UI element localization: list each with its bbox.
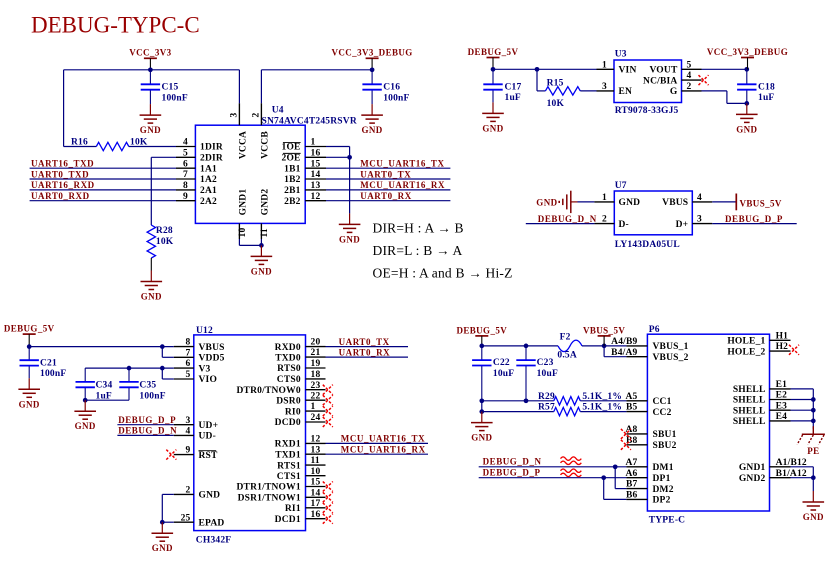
svg-text:DP2: DP2 — [653, 496, 671, 506]
svg-text:GND: GND — [140, 125, 161, 135]
svg-text:R57: R57 — [538, 403, 555, 413]
svg-text:DIR=H : A → B: DIR=H : A → B — [373, 220, 464, 235]
svg-text:9: 9 — [186, 446, 191, 456]
svg-text:4: 4 — [186, 427, 191, 437]
svg-text:HOLE_1: HOLE_1 — [727, 337, 765, 347]
svg-text:MCU_UART16_RX: MCU_UART16_RX — [341, 445, 426, 455]
svg-text:RXD0: RXD0 — [275, 343, 301, 353]
svg-text:C15: C15 — [162, 83, 179, 93]
svg-text:100nF: 100nF — [162, 93, 188, 103]
svg-text:D-: D- — [619, 220, 629, 230]
svg-text:2: 2 — [687, 82, 692, 92]
svg-text:UART16_RXD: UART16_RXD — [31, 180, 95, 190]
svg-text:2B2: 2B2 — [284, 197, 300, 207]
svg-text:DEBUG_D_P: DEBUG_D_P — [725, 214, 783, 224]
svg-text:1B1: 1B1 — [284, 164, 300, 174]
svg-text:GND: GND — [736, 124, 757, 134]
svg-text:2: 2 — [252, 113, 262, 118]
svg-text:UD+: UD+ — [199, 421, 219, 431]
svg-text:SBU1: SBU1 — [653, 430, 677, 440]
svg-text:UART0_RX: UART0_RX — [339, 347, 391, 357]
svg-text:14: 14 — [311, 488, 321, 498]
svg-text:MCU_UART16_RX: MCU_UART16_RX — [360, 180, 445, 190]
svg-text:UART0_RXD: UART0_RXD — [31, 191, 90, 201]
svg-text:F2: F2 — [560, 333, 571, 343]
svg-text:3: 3 — [697, 215, 702, 225]
svg-text:DP1: DP1 — [653, 474, 671, 484]
svg-text:DEBUG_5V: DEBUG_5V — [456, 325, 507, 335]
svg-text:VCCA: VCCA — [239, 131, 249, 159]
svg-text:1uF: 1uF — [758, 93, 774, 103]
svg-text:RTS0: RTS0 — [277, 364, 301, 374]
svg-text:3: 3 — [602, 82, 607, 92]
svg-text:C17: C17 — [505, 82, 522, 92]
svg-text:U12: U12 — [196, 326, 213, 336]
svg-text:VDD5: VDD5 — [199, 354, 225, 364]
svg-text:VBUS_5V: VBUS_5V — [583, 325, 625, 335]
svg-text:E2: E2 — [776, 391, 788, 401]
svg-text:GND1: GND1 — [739, 463, 766, 473]
svg-text:1: 1 — [311, 402, 316, 412]
svg-text:GND: GND — [803, 512, 824, 522]
svg-text:GND1: GND1 — [239, 189, 249, 216]
svg-text:TXD0: TXD0 — [275, 353, 301, 363]
svg-text:DSR0: DSR0 — [276, 396, 301, 406]
svg-text:CTS1: CTS1 — [277, 472, 301, 482]
svg-text:CH342F: CH342F — [196, 536, 232, 546]
svg-text:C18: C18 — [758, 82, 775, 92]
svg-text:TYPE-C: TYPE-C — [649, 516, 686, 526]
svg-text:8: 8 — [183, 181, 188, 191]
svg-text:DM2: DM2 — [653, 485, 674, 495]
svg-text:DEBUG_5V: DEBUG_5V — [468, 47, 519, 57]
svg-text:A5: A5 — [625, 392, 637, 402]
svg-text:H2: H2 — [776, 342, 789, 352]
svg-text:100nF: 100nF — [383, 93, 409, 103]
svg-text:RXD1: RXD1 — [275, 440, 301, 450]
svg-text:PE: PE — [807, 446, 819, 456]
svg-text:GND: GND — [536, 197, 557, 207]
svg-text:2: 2 — [186, 486, 191, 496]
svg-text:C16: C16 — [383, 83, 400, 93]
svg-text:18: 18 — [311, 370, 321, 380]
svg-text:0.5A: 0.5A — [557, 351, 577, 361]
svg-text:2DIR: 2DIR — [200, 154, 223, 164]
svg-text:25: 25 — [181, 513, 191, 523]
svg-text:13: 13 — [311, 445, 321, 455]
svg-text:B6: B6 — [626, 491, 638, 501]
svg-text:VBUS_2: VBUS_2 — [653, 353, 689, 363]
svg-text:10K: 10K — [130, 137, 148, 147]
svg-text:VOUT: VOUT — [649, 66, 678, 76]
svg-text:7: 7 — [186, 348, 191, 358]
svg-text:16: 16 — [311, 510, 321, 520]
svg-text:1: 1 — [602, 193, 607, 203]
svg-text:UART0_TXD: UART0_TXD — [31, 169, 89, 179]
svg-text:A6: A6 — [625, 469, 637, 479]
svg-text:23: 23 — [311, 381, 321, 391]
svg-text:VCC_3V3: VCC_3V3 — [129, 48, 171, 58]
svg-text:100nF: 100nF — [139, 391, 165, 401]
svg-text:GND2: GND2 — [739, 474, 766, 484]
svg-text:VCCB: VCCB — [261, 131, 271, 159]
svg-text:10: 10 — [311, 467, 321, 477]
svg-text:E4: E4 — [776, 412, 788, 422]
svg-text:GND: GND — [361, 125, 382, 135]
svg-text:1OE: 1OE — [282, 143, 301, 153]
svg-text:EPAD: EPAD — [199, 518, 225, 528]
svg-text:1B2: 1B2 — [284, 175, 300, 185]
svg-text:DEBUG_D_N: DEBUG_D_N — [118, 426, 177, 436]
svg-text:G: G — [670, 87, 678, 97]
svg-text:GND: GND — [619, 198, 641, 208]
svg-text:SHELL: SHELL — [733, 385, 766, 395]
svg-text:E1: E1 — [776, 380, 788, 390]
svg-text:GND: GND — [152, 543, 173, 553]
svg-text:8: 8 — [186, 338, 191, 348]
svg-text:RI1: RI1 — [285, 504, 301, 514]
svg-text:3: 3 — [230, 113, 240, 118]
svg-text:CC1: CC1 — [653, 397, 672, 407]
svg-text:17: 17 — [311, 499, 321, 509]
svg-text:RST: RST — [199, 451, 219, 461]
svg-text:C35: C35 — [139, 381, 156, 391]
svg-text:R28: R28 — [156, 226, 173, 236]
svg-text:DEBUG-TYPC-C: DEBUG-TYPC-C — [31, 13, 200, 38]
svg-text:5: 5 — [186, 370, 191, 380]
svg-text:10uF: 10uF — [537, 369, 558, 379]
svg-text:SHELL: SHELL — [733, 406, 766, 416]
svg-text:1DIR: 1DIR — [200, 143, 223, 153]
svg-text:P6: P6 — [649, 325, 660, 335]
svg-text:GND2: GND2 — [261, 189, 271, 216]
svg-text:7: 7 — [183, 170, 188, 180]
svg-text:VBUS: VBUS — [662, 198, 688, 208]
svg-text:9: 9 — [183, 192, 188, 202]
svg-text:DCD0: DCD0 — [275, 418, 301, 428]
svg-text:22: 22 — [311, 391, 321, 401]
svg-text:SBU2: SBU2 — [653, 441, 677, 451]
svg-text:R15: R15 — [547, 78, 564, 88]
svg-text:DTR0/TNOW0: DTR0/TNOW0 — [237, 386, 301, 396]
svg-text:GND: GND — [471, 433, 492, 443]
svg-text:VCC_3V3_DEBUG: VCC_3V3_DEBUG — [331, 48, 412, 58]
svg-text:GND: GND — [482, 123, 503, 133]
svg-text:VBUS_5V: VBUS_5V — [740, 199, 782, 209]
svg-text:24: 24 — [311, 413, 321, 423]
svg-text:20: 20 — [311, 338, 321, 348]
svg-text:10: 10 — [238, 228, 248, 238]
svg-text:GND: GND — [75, 421, 96, 431]
svg-text:C22: C22 — [493, 358, 510, 368]
svg-text:6: 6 — [183, 159, 188, 169]
svg-text:12: 12 — [311, 435, 321, 445]
svg-text:R16: R16 — [71, 137, 88, 147]
svg-text:C23: C23 — [537, 358, 554, 368]
svg-text:TXD1: TXD1 — [275, 450, 301, 460]
svg-text:21: 21 — [311, 348, 321, 358]
svg-text:100nF: 100nF — [40, 369, 66, 379]
svg-text:SHELL: SHELL — [733, 396, 766, 406]
svg-text:OE=H : A and B → Hi-Z: OE=H : A and B → Hi-Z — [373, 266, 513, 281]
svg-text:3: 3 — [186, 416, 191, 426]
svg-text:C21: C21 — [40, 358, 57, 368]
svg-text:10uF: 10uF — [493, 369, 514, 379]
svg-text:B8: B8 — [626, 436, 638, 446]
svg-text:2A2: 2A2 — [200, 197, 217, 207]
svg-text:DSR1/TNOW1: DSR1/TNOW1 — [238, 494, 301, 504]
svg-text:5: 5 — [183, 148, 188, 158]
svg-text:VIN: VIN — [619, 66, 637, 76]
svg-text:GND: GND — [339, 234, 360, 244]
svg-text:DM1: DM1 — [653, 463, 674, 473]
svg-text:1: 1 — [602, 60, 607, 70]
svg-text:U7: U7 — [615, 181, 627, 191]
svg-text:DTR1/TNOW1: DTR1/TNOW1 — [237, 483, 301, 493]
svg-text:DCD1: DCD1 — [275, 515, 301, 525]
svg-text:CTS0: CTS0 — [277, 375, 301, 385]
svg-text:U3: U3 — [615, 50, 627, 60]
svg-text:UD-: UD- — [199, 432, 217, 442]
svg-text:R29: R29 — [538, 392, 555, 402]
svg-text:15: 15 — [311, 478, 321, 488]
svg-text:MCU_UART16_TX: MCU_UART16_TX — [360, 159, 444, 169]
svg-text:A8: A8 — [625, 425, 637, 435]
svg-text:10K: 10K — [547, 99, 565, 109]
svg-text:C34: C34 — [96, 381, 113, 391]
svg-text:LY143DA05UL: LY143DA05UL — [615, 240, 680, 250]
svg-text:4: 4 — [183, 138, 188, 148]
svg-text:11: 11 — [311, 456, 320, 466]
svg-text:DEBUG_D_N: DEBUG_D_N — [538, 214, 597, 224]
svg-text:6: 6 — [186, 359, 191, 369]
svg-text:CC2: CC2 — [653, 408, 672, 418]
svg-text:2B1: 2B1 — [284, 186, 300, 196]
svg-text:4: 4 — [697, 193, 702, 203]
svg-text:DIR=L : B → A: DIR=L : B → A — [373, 243, 463, 258]
svg-text:1uF: 1uF — [505, 93, 521, 103]
svg-text:1A1: 1A1 — [200, 164, 217, 174]
svg-text:B7: B7 — [626, 480, 638, 490]
svg-text:VCC_3V3_DEBUG: VCC_3V3_DEBUG — [707, 47, 788, 57]
svg-text:B5: B5 — [626, 403, 638, 413]
svg-text:DEBUG_D_P: DEBUG_D_P — [118, 415, 176, 425]
svg-text:MCU_UART16_TX: MCU_UART16_TX — [341, 434, 425, 444]
svg-text:H1: H1 — [776, 331, 789, 341]
svg-text:11: 11 — [260, 228, 270, 237]
svg-text:RI0: RI0 — [285, 407, 301, 417]
svg-text:UART0_RX: UART0_RX — [360, 191, 412, 201]
svg-text:5: 5 — [687, 60, 692, 70]
svg-text:RT9078-33GJ5: RT9078-33GJ5 — [615, 106, 679, 116]
svg-text:2: 2 — [602, 215, 607, 225]
svg-text:1A2: 1A2 — [200, 175, 217, 185]
svg-text:U4: U4 — [272, 106, 284, 116]
svg-text:VIO: VIO — [199, 375, 218, 385]
svg-text:GND: GND — [141, 292, 162, 302]
svg-text:DEBUG_D_N: DEBUG_D_N — [483, 457, 542, 467]
svg-text:HOLE_2: HOLE_2 — [727, 347, 765, 357]
svg-text:UART0_TX: UART0_TX — [339, 337, 390, 347]
svg-text:2A1: 2A1 — [200, 186, 217, 196]
svg-text:NC/BIA: NC/BIA — [643, 76, 677, 86]
svg-text:DEBUG_5V: DEBUG_5V — [4, 324, 55, 334]
svg-text:E3: E3 — [776, 401, 788, 411]
svg-text:VBUS_1: VBUS_1 — [653, 342, 689, 352]
svg-text:EN: EN — [619, 87, 633, 97]
svg-text:DEBUG_D_P: DEBUG_D_P — [483, 468, 541, 478]
svg-text:VBUS: VBUS — [199, 343, 225, 353]
svg-text:GND: GND — [199, 491, 221, 501]
svg-text:10K: 10K — [156, 237, 174, 247]
svg-text:2OE: 2OE — [282, 154, 301, 164]
svg-text:RTS1: RTS1 — [277, 461, 301, 471]
svg-text:D+: D+ — [676, 220, 689, 230]
svg-text:19: 19 — [311, 359, 321, 369]
svg-text:4: 4 — [687, 71, 692, 81]
svg-text:UART0_TX: UART0_TX — [360, 169, 411, 179]
svg-text:SHELL: SHELL — [733, 417, 766, 427]
svg-text:A7: A7 — [625, 458, 637, 468]
svg-text:GND: GND — [19, 399, 40, 409]
svg-text:SN74AVC4T245RSVR: SN74AVC4T245RSVR — [262, 117, 357, 127]
svg-text:UART16_TXD: UART16_TXD — [31, 159, 94, 169]
svg-text:V3: V3 — [199, 364, 211, 374]
svg-text:GND: GND — [251, 266, 272, 276]
